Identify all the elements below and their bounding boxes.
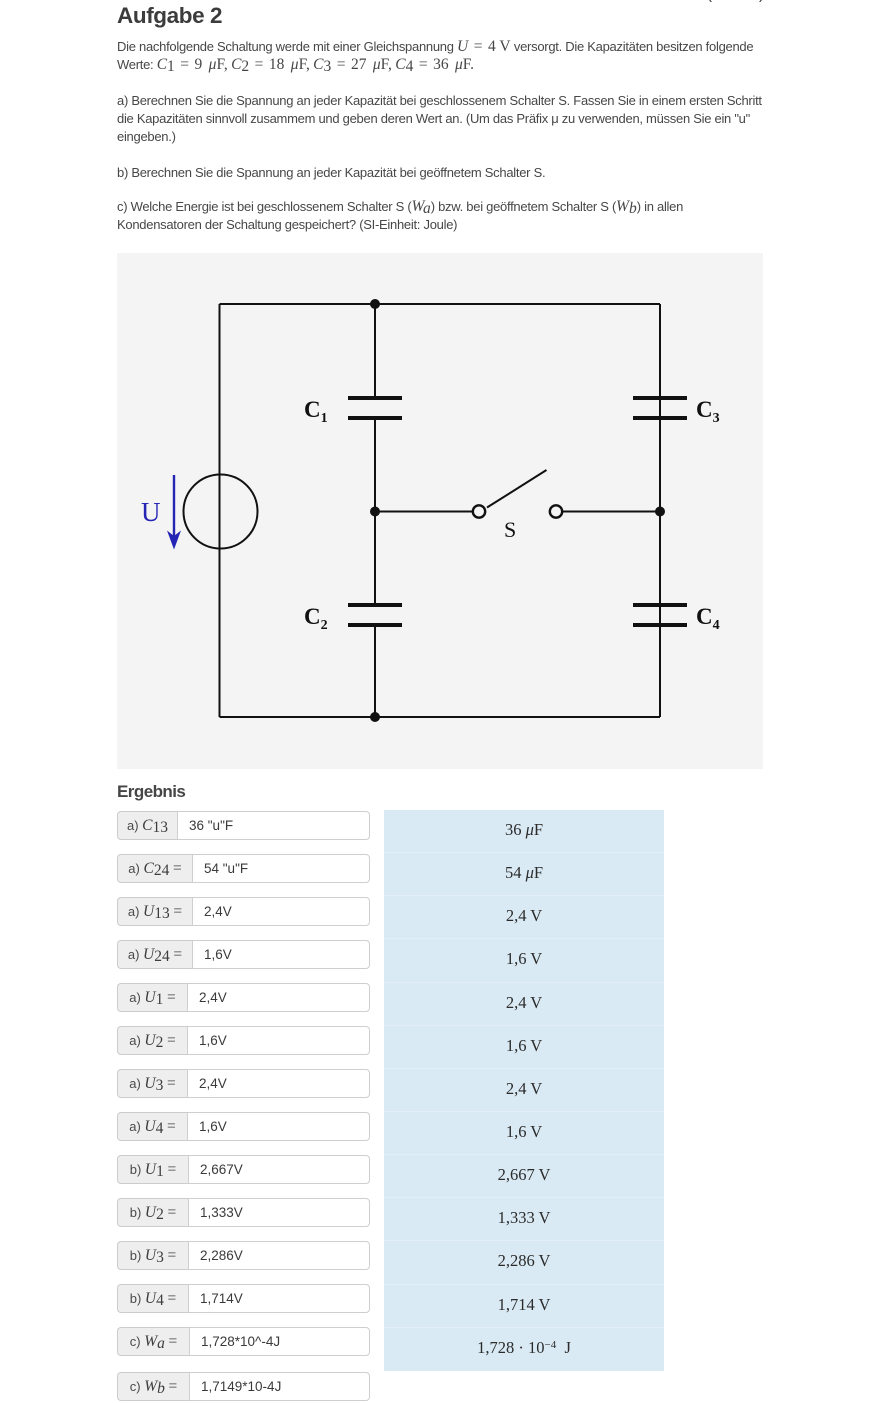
node dot bottom — [370, 712, 380, 722]
wire: middle branch below C2 — [374, 625, 376, 717]
result rows — [117, 811, 370, 840]
wire: left side — [219, 304, 221, 717]
Ergebnis heading — [117, 782, 185, 802]
cut-off parentheses fragment at top — [690, 0, 810, 4]
wire: middle branch between C1 and C2 — [374, 418, 376, 605]
wire: outer loop top — [220, 303, 661, 305]
node dot middle — [370, 507, 380, 517]
svg-text:U: U — [141, 497, 161, 527]
paragraph 1 — [117, 38, 777, 74]
paragraph a) — [117, 92, 777, 145]
svg-text:C3: C3 — [696, 397, 720, 426]
svg-text:C1: C1 — [304, 397, 328, 426]
paragraph c) — [117, 198, 777, 234]
wire: middle horizontal to switch — [375, 511, 473, 513]
switch S blade — [487, 470, 547, 508]
svg-text:C4: C4 — [696, 604, 720, 633]
node dot top — [370, 299, 380, 309]
wire: switch right to right rail — [562, 511, 660, 513]
U arrow (blue) — [167, 475, 181, 550]
wire: middle branch upper (to C1) — [374, 304, 376, 398]
paragraph b) — [117, 164, 777, 182]
capacitor C1 plates — [348, 398, 402, 418]
blue result column — [384, 810, 664, 1371]
wire: bottom — [220, 716, 661, 718]
node dot right — [655, 507, 665, 517]
capacitor C2 plates — [348, 605, 402, 625]
circuit panel — [117, 253, 763, 769]
wire: right side — [659, 304, 661, 717]
capacitor C4 plates — [633, 605, 687, 625]
voltage source U circle — [184, 475, 258, 549]
svg-text:S: S — [504, 517, 516, 542]
title — [117, 3, 222, 29]
switch S left contact — [473, 505, 485, 517]
svg-text:C2: C2 — [304, 604, 328, 633]
capacitor C3 plates — [633, 398, 687, 418]
switch S right contact — [550, 505, 562, 517]
